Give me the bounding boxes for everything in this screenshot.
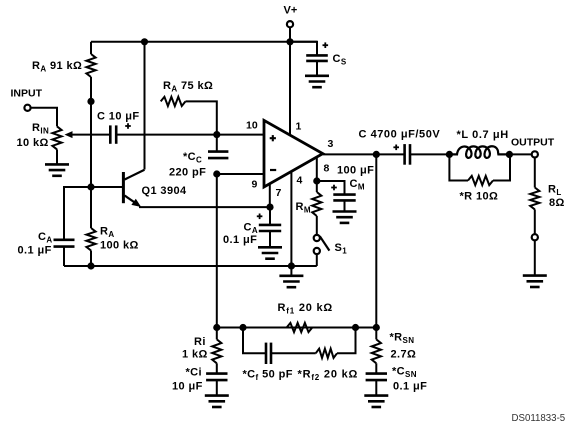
resistor RSN 2.7ohm <box>372 339 381 363</box>
polarity + CA right <box>257 214 263 220</box>
label Rf1 <box>278 302 334 316</box>
node L right <box>506 151 513 158</box>
svg-text:RA 91 kΩ: RA 91 kΩ <box>32 60 82 74</box>
svg-text:8Ω: 8Ω <box>549 197 565 209</box>
svg-text:220 pF: 220 pF <box>169 167 206 179</box>
svg-text:V+: V+ <box>284 5 298 17</box>
node Cf branch <box>239 324 246 331</box>
resistor RM <box>312 192 321 216</box>
label Ci value <box>172 381 203 393</box>
node RA divider <box>87 98 94 105</box>
wire RM stubs <box>316 181 318 235</box>
polarity + CM <box>331 185 337 191</box>
wire CS branch <box>290 42 317 76</box>
wire op-amp pin 7 drop <box>269 184 271 208</box>
op-amp + input mark <box>270 135 276 141</box>
label pin 10 <box>246 120 258 132</box>
capacitor C 4700uF/50V <box>405 144 410 165</box>
capacitor Cf 50pF <box>266 343 271 364</box>
wire CSN bottom to ground <box>375 380 377 396</box>
wire L to output terminal <box>509 153 531 155</box>
node bias top <box>141 38 148 45</box>
wire RL top <box>534 158 536 188</box>
label CA right <box>244 222 259 236</box>
svg-text:3: 3 <box>328 138 334 150</box>
label Ci <box>186 367 202 379</box>
svg-text:0.1 μF: 0.1 μF <box>223 234 257 246</box>
label Ri value <box>182 349 208 361</box>
label pin 1 <box>296 121 302 133</box>
terminal OUTPUT <box>532 151 538 157</box>
node +input <box>213 131 220 138</box>
capacitor CA right 0.1uF <box>259 225 281 231</box>
label OUTPUT <box>511 137 555 149</box>
label CA left <box>38 231 53 245</box>
label C4700 value <box>359 129 441 141</box>
capacitor CM 100uF <box>333 195 355 201</box>
resistor R 10ohm damper <box>468 176 493 185</box>
label V+ <box>284 5 298 17</box>
wire emitter row (Q1 to pin 7 node) <box>139 206 270 208</box>
wire feedback vertical (inverting node down to feedback rail) <box>216 174 218 328</box>
resistor RA 100k <box>86 228 95 251</box>
node Q1 base <box>87 183 94 190</box>
svg-text:*Ci: *Ci <box>186 367 202 379</box>
wire RA100k stubs <box>90 187 92 266</box>
svg-text:1: 1 <box>296 121 302 133</box>
label pin 8 <box>324 163 330 175</box>
ground RIN <box>45 164 69 175</box>
ground RL <box>523 276 547 287</box>
wire C4700 to L <box>410 153 449 155</box>
wire collector vertical <box>144 42 146 170</box>
wire Ci bottom to ground <box>216 380 218 396</box>
label RM <box>296 201 311 215</box>
resistor Ri 1k <box>212 339 221 363</box>
svg-text:Rf1 20 kΩ: Rf1 20 kΩ <box>278 302 334 316</box>
ground CA right <box>258 247 282 258</box>
capacitor CC 220pF <box>208 152 228 159</box>
node feedback left <box>213 324 220 331</box>
wire Rf2 up to rail <box>337 328 356 354</box>
ground CM <box>333 212 357 223</box>
wire output sense vertical <box>375 154 377 327</box>
svg-text:0.1 μF: 0.1 μF <box>18 245 52 257</box>
wire rail ground stub <box>290 266 292 276</box>
svg-text:INPUT: INPUT <box>11 88 43 100</box>
wire RSN stubs <box>375 328 377 375</box>
resistor RA 75k <box>161 97 186 106</box>
label CM value <box>337 165 374 177</box>
wire RA75k row riser <box>186 101 217 134</box>
svg-text:DS011833-5: DS011833-5 <box>512 413 566 424</box>
label pin 4 <box>297 175 303 187</box>
svg-text:Q1 3904: Q1 3904 <box>142 185 187 197</box>
svg-text:2.7Ω: 2.7Ω <box>391 349 417 361</box>
node -input <box>213 170 220 177</box>
capacitor C 10uF <box>110 125 116 143</box>
label pin 9 <box>252 179 258 191</box>
wire op-amp pin 8 drop <box>316 158 318 181</box>
label CA right value <box>223 234 257 246</box>
wire Ri stubs <box>216 328 218 375</box>
label CSN <box>392 366 417 380</box>
label RL value <box>549 197 565 209</box>
wire bias divider vertical <box>90 42 92 187</box>
wire input terminal to RIN <box>31 108 57 127</box>
resistor Rf2 20k <box>316 349 337 358</box>
wire feedback rail <box>217 327 376 329</box>
label RA 100k <box>100 226 115 240</box>
resistor RL 8ohm <box>530 188 539 210</box>
label RL <box>548 184 562 198</box>
svg-text:4: 4 <box>297 175 303 187</box>
resistor RA 91k <box>86 54 95 77</box>
label RIN <box>32 122 49 136</box>
svg-text:8: 8 <box>324 163 330 175</box>
svg-text:100 kΩ: 100 kΩ <box>100 240 139 252</box>
node pin8/RM <box>313 177 320 184</box>
terminal INPUT <box>24 105 30 111</box>
svg-text:7: 7 <box>276 187 282 199</box>
label C 10uF <box>97 111 140 123</box>
node GND rail <box>288 262 295 269</box>
svg-text:C 10 μF: C 10 μF <box>97 111 140 123</box>
label RA 75k <box>163 80 213 94</box>
wire Cf branch down <box>243 328 266 354</box>
label CC <box>183 151 202 165</box>
label Rf2 <box>298 369 359 383</box>
svg-text:*R 10Ω: *R 10Ω <box>460 191 499 203</box>
ground Ci <box>205 396 229 407</box>
wire RL bottom to terminal <box>534 209 536 234</box>
svg-text:*L 0.7 μH: *L 0.7 μH <box>457 129 509 141</box>
op-amp U1 LM3886 <box>264 120 323 187</box>
svg-text:C 4700 μF/50V: C 4700 μF/50V <box>359 129 441 141</box>
ground CS <box>305 76 329 87</box>
node pin7/emitter <box>266 204 273 211</box>
polarity + C4700 <box>393 145 399 151</box>
label Cf <box>243 369 293 383</box>
inductor L 0.7uH <box>449 146 509 158</box>
svg-text:*Cf 50 pF: *Cf 50 pF <box>243 369 293 383</box>
potentiometer RIN 10k <box>52 126 61 149</box>
wire -input row (CC junction to op-amp pin 9) <box>217 173 264 175</box>
label Ri <box>194 336 206 348</box>
node Rf2 branch <box>352 324 359 331</box>
svg-text:10: 10 <box>246 120 258 132</box>
capacitor CA left 0.1uF <box>54 240 75 247</box>
label CM <box>350 178 365 192</box>
label S1 <box>335 242 348 256</box>
svg-text:1 kΩ: 1 kΩ <box>182 349 208 361</box>
node feedback right <box>373 324 380 331</box>
polarity + C10uF <box>125 123 131 129</box>
wire output row (pin 3 to C4700) <box>323 153 405 155</box>
label RIN value <box>17 137 49 149</box>
svg-text:0.1 μF: 0.1 μF <box>393 381 427 393</box>
svg-text:9: 9 <box>252 179 258 191</box>
wire V+ terminal drop <box>289 27 291 42</box>
wire Cf to Rf2 <box>271 352 316 354</box>
wire RL terminal to ground <box>534 240 536 275</box>
label pin 3 <box>328 138 334 150</box>
switch S1 <box>314 235 330 254</box>
label pin 7 <box>276 187 282 199</box>
svg-text:10 μF: 10 μF <box>172 381 203 393</box>
node L left <box>446 151 453 158</box>
capacitor CSN 0.1uF <box>366 374 387 381</box>
svg-text:100 μF: 100 μF <box>337 165 374 177</box>
wire CM branch <box>317 181 345 212</box>
wire CC upper stub <box>216 135 218 153</box>
wire CA-left branch <box>64 187 91 240</box>
label RA 100k value <box>100 240 139 252</box>
wire S1 bottom to ground rail <box>316 254 318 266</box>
svg-text:*Rf2 20 kΩ: *Rf2 20 kΩ <box>298 369 359 383</box>
svg-text:RA 75 kΩ: RA 75 kΩ <box>163 80 213 94</box>
ground CSN <box>364 396 388 407</box>
label CA left value <box>18 245 52 257</box>
label R value <box>460 191 499 203</box>
label RSN <box>390 332 415 346</box>
wire R damper branch <box>449 154 510 180</box>
terminal V+ <box>287 21 293 27</box>
label Q1 3904 <box>142 185 187 197</box>
terminal RL bottom <box>532 234 538 240</box>
ground rail (GND pin) <box>279 276 303 287</box>
label CS <box>333 53 347 67</box>
svg-text:OUTPUT: OUTPUT <box>511 137 555 149</box>
node output pin3 <box>373 151 380 158</box>
transistor Q1 2N3904 <box>123 170 144 207</box>
wire op-amp pin 4 drop <box>290 172 292 267</box>
capacitor Ci 10uF <box>206 374 227 381</box>
wiper arrow RIN <box>65 131 73 138</box>
wire CA-left bottom to rail <box>63 247 65 267</box>
wire base (node to Q1) <box>91 186 123 188</box>
node RA100k bottom <box>87 262 94 269</box>
wire V+ rail (top) <box>91 41 317 43</box>
label CSN value <box>393 381 427 393</box>
svg-text:Ri: Ri <box>194 336 206 348</box>
svg-text:10 kΩ: 10 kΩ <box>17 137 49 149</box>
wire +input row (wiper to C cap to op-amp pin 10) <box>71 134 264 136</box>
label L value <box>457 129 509 141</box>
op-amp - input mark <box>270 169 276 171</box>
label DS011833-5 <box>512 413 566 424</box>
label RSN value <box>391 349 417 361</box>
capacitor CS <box>306 55 328 61</box>
label RA 91k <box>32 60 82 74</box>
resistor Rf1 20k <box>287 323 313 332</box>
label CC value <box>169 167 206 179</box>
wire RIN bottom to ground <box>56 149 58 164</box>
wire CA-right branch <box>269 207 271 247</box>
wire ground rail (bottom of Q1 stage) <box>64 265 317 267</box>
node V+ junction <box>286 38 293 45</box>
polarity + CS <box>323 42 329 48</box>
wire op-amp pin 1 supply <box>289 42 291 136</box>
label INPUT <box>11 88 43 100</box>
